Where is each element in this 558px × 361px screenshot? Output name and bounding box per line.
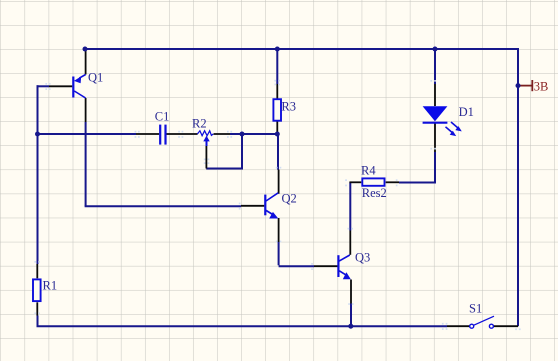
- pin Q3 emitter: [350, 280, 352, 304]
- pin D1 anode (top): [434, 84, 436, 106]
- wire R3 column upper (top rail down to R3 pin): [276, 49, 278, 84]
- LED D1: [423, 105, 474, 136]
- pin R2 wiper stem: [205, 146, 207, 169]
- pin R1 top: [36, 264, 38, 278]
- junction dot at 3B power tap on right rail: [516, 83, 521, 88]
- svg-text:Res2: Res2: [362, 186, 387, 200]
- svg-text:R2: R2: [192, 117, 207, 131]
- capacitor C1: [155, 109, 170, 144]
- potentiometer R2: [192, 117, 213, 147]
- pin R3 bottom: [276, 121, 278, 134]
- svg-text:R1: R1: [43, 279, 58, 293]
- pin Q1 base: [49, 85, 72, 87]
- svg-text:C1: C1: [155, 109, 170, 123]
- wire R4 right to D1 bottom corner: [399, 152, 435, 183]
- svg-text:Q1: Q1: [88, 71, 103, 85]
- junction dot at R3 top / top rail: [275, 47, 280, 52]
- pin R4 right: [386, 181, 399, 183]
- switch S1: [469, 301, 494, 328]
- pin Q2 emitter: [278, 218, 280, 242]
- svg-text:D1: D1: [459, 105, 474, 119]
- pin Q1 collector (bottom): [85, 98, 87, 122]
- svg-text:Q2: Q2: [282, 192, 297, 206]
- wire row y=133 left segment to C1: [38, 133, 137, 135]
- wire top rail from Q1 emitter node to right rail corner: [85, 48, 518, 50]
- svg-text:Q3: Q3: [355, 251, 370, 265]
- junction dot at D1 top / top rail: [433, 47, 438, 52]
- transistor Q1 (PNP): [73, 71, 103, 98]
- pin Q1 emitter (top): [85, 50, 87, 75]
- pin R2 right: [214, 133, 231, 135]
- pin D1 cathode (bottom): [434, 124, 436, 153]
- junction dot at R3 bottom / row 133: [275, 132, 280, 137]
- svg-text:3B: 3B: [534, 79, 549, 93]
- transistor Q2 (NPN): [265, 192, 296, 219]
- pin S1 right: [494, 325, 519, 327]
- wire bottom rail left segment: [37, 316, 448, 327]
- wire Q3 emitter down to bottom rail: [350, 304, 352, 327]
- resistor R1: [33, 279, 57, 302]
- pin C1 left: [136, 133, 159, 135]
- wire Q2 collector column (node down to pin): [277, 134, 279, 170]
- junction dot at left column / row 133: [35, 132, 40, 137]
- pin S1 left: [447, 325, 470, 327]
- wire Q1 base stub: [37, 85, 50, 87]
- transistor Q3 (NPN): [338, 251, 370, 280]
- wire Q1 collector column down to Q2 base row: [85, 122, 87, 206]
- junction dot at Q3 emitter / bottom rail: [348, 324, 353, 329]
- wire Q3 collector up to R4 left corner: [349, 183, 351, 231]
- wire R2 wiper loop (down, right, up to node): [206, 134, 242, 169]
- wire left column vertical (Q1 base corner down to R1): [37, 85, 39, 264]
- junction dot at Q1 emitter / top rail: [83, 47, 88, 52]
- wire right rail vertical down to switch: [517, 48, 519, 326]
- resistor R4: [361, 164, 385, 186]
- pin Q2 collector: [278, 170, 280, 194]
- wire D1 column upper (top rail down to D1 pin): [434, 49, 436, 84]
- resistor R3: [273, 99, 296, 121]
- svg-text:R3: R3: [281, 100, 296, 114]
- junction dot at R2 wiper loop / row 133: [240, 132, 245, 137]
- wire row y=133 segment from R2 to R3 bottom node: [230, 133, 277, 135]
- pin Q2 base: [241, 205, 264, 207]
- wire Q2 base row horizontal: [85, 205, 241, 207]
- pin R3 top: [276, 84, 278, 99]
- pin hotspot markers: [34, 80, 520, 330]
- pin Q3 base: [314, 265, 338, 267]
- wire Q2 emitter down and right to Q3 base: [279, 242, 314, 266]
- svg-text:S1: S1: [469, 301, 482, 315]
- pin C1 right / R2 left: [166, 133, 197, 135]
- power port 3B: [520, 79, 548, 93]
- pin Q3 collector: [349, 231, 351, 255]
- pin R4 left: [349, 181, 361, 183]
- pin R1 bottom: [36, 302, 38, 315]
- svg-text:R4: R4: [361, 164, 376, 178]
